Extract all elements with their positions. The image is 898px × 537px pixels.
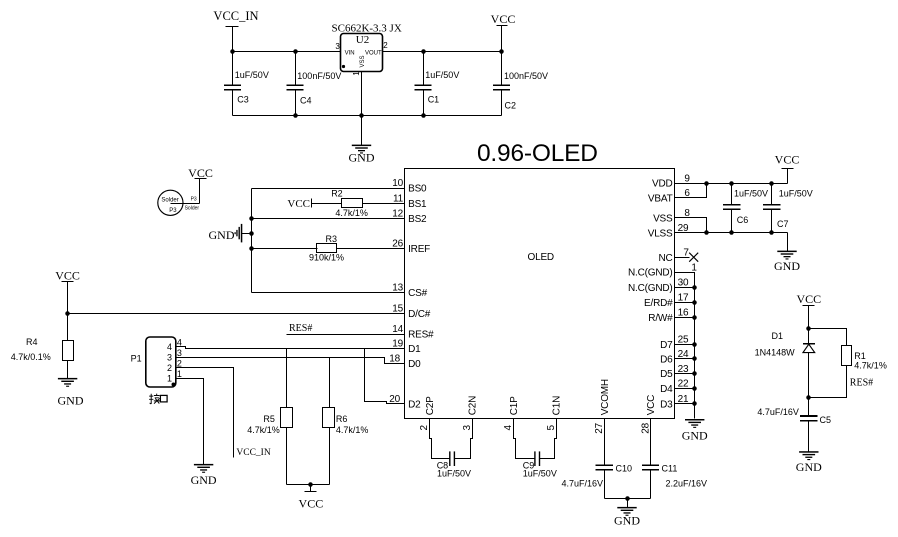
svg-text:C1P: C1P <box>509 396 520 415</box>
wire D6 <box>675 358 695 360</box>
wire D5 <box>675 373 695 375</box>
svg-text:1uF/50V: 1uF/50V <box>235 70 269 80</box>
svg-text:VCC: VCC <box>188 166 213 180</box>
svg-text:RES#: RES# <box>408 330 434 341</box>
svg-text:C2P: C2P <box>425 396 436 415</box>
wire BS2 <box>252 218 405 220</box>
svg-text:BS0: BS0 <box>408 184 427 195</box>
svg-text:GND: GND <box>191 473 217 487</box>
wire P1 pin4 to D1 <box>176 347 405 349</box>
svg-text:R6: R6 <box>336 414 348 424</box>
svg-text:2: 2 <box>167 363 172 373</box>
node diode bottom <box>806 395 811 400</box>
net port VCC + resistor R2 to BS1 <box>287 189 404 219</box>
svg-text:VCC: VCC <box>796 292 821 306</box>
svg-text:9: 9 <box>684 173 690 184</box>
svg-text:4.7k/1%: 4.7k/1% <box>854 360 887 370</box>
capacitor C1 <box>414 52 459 116</box>
svg-text:C5: C5 <box>820 415 832 425</box>
wire CS# <box>252 292 405 294</box>
wire VBAT join <box>675 184 707 198</box>
net port VCC (diode circuit) <box>796 292 821 329</box>
svg-text:Solder: Solder <box>161 197 178 203</box>
right GND bus <box>675 273 695 419</box>
svg-text:3: 3 <box>167 352 172 362</box>
capacitor C2 <box>493 52 548 116</box>
svg-text:1uF/50V: 1uF/50V <box>779 188 813 198</box>
capacitor C11 <box>642 419 707 499</box>
svg-text:18: 18 <box>389 354 400 365</box>
svg-text:Solder: Solder <box>185 206 200 212</box>
svg-text:VCC: VCC <box>299 497 324 511</box>
svg-text:4: 4 <box>503 425 514 431</box>
wire BS0 <box>252 188 405 190</box>
svg-text:RES#: RES# <box>850 378 873 389</box>
wire pin16 <box>675 317 695 319</box>
wire P1 pin2 VCC_IN <box>176 368 234 458</box>
svg-text:P3: P3 <box>191 197 197 203</box>
svg-text:0.96-OLED: 0.96-OLED <box>477 140 598 167</box>
svg-text:1: 1 <box>691 262 697 273</box>
svg-text:VDD: VDD <box>652 179 673 190</box>
svg-text:R4: R4 <box>26 337 38 347</box>
svg-text:15: 15 <box>392 303 403 314</box>
svg-text:D0: D0 <box>408 359 421 370</box>
svg-text:RES#: RES# <box>289 323 312 334</box>
svg-text:1uF/50V: 1uF/50V <box>734 188 768 198</box>
wire D7 <box>675 344 695 346</box>
svg-text:GND: GND <box>614 513 640 527</box>
solder jumper P3 <box>158 179 200 216</box>
svg-text:VLSS: VLSS <box>648 228 673 239</box>
svg-text:VCC_IN: VCC_IN <box>236 448 270 458</box>
pin names left side <box>408 184 434 411</box>
svg-text:D2: D2 <box>408 400 421 411</box>
svg-text:R3: R3 <box>326 234 338 244</box>
svg-text:4: 4 <box>177 337 182 347</box>
svg-text:VCC: VCC <box>646 395 657 416</box>
svg-text:3: 3 <box>335 42 340 51</box>
svg-text:IREF: IREF <box>408 244 430 255</box>
svg-text:C7: C7 <box>777 219 789 229</box>
svg-text:28: 28 <box>640 422 651 433</box>
svg-text:VBAT: VBAT <box>648 193 673 204</box>
bottom rail (top section) <box>233 115 502 117</box>
svg-text:U2: U2 <box>356 34 369 46</box>
wire D3 <box>675 403 695 405</box>
capacitor C4 <box>286 52 341 116</box>
wire VLSS to GND <box>787 233 789 252</box>
connector P1 <box>131 337 182 387</box>
svg-text:D/C#: D/C# <box>408 309 431 320</box>
svg-text:4.7k/1%: 4.7k/1% <box>247 425 280 435</box>
svg-text:D7: D7 <box>660 340 673 351</box>
svg-text:P3: P3 <box>169 208 177 214</box>
resistor R3 to IREF <box>252 234 405 262</box>
svg-text:C2N: C2N <box>468 396 479 415</box>
svg-text:16: 16 <box>678 307 689 318</box>
wire VSS join <box>675 218 707 233</box>
svg-text:4.7k/1%: 4.7k/1% <box>335 208 368 218</box>
svg-text:VSS: VSS <box>360 55 366 67</box>
svg-text:5: 5 <box>546 425 557 431</box>
svg-text:7: 7 <box>683 247 689 258</box>
svg-text:VSS: VSS <box>653 213 673 224</box>
wire branch to D2 <box>365 349 405 404</box>
pin NC with X (no connect) <box>675 253 699 262</box>
svg-text:VCC: VCC <box>775 152 800 166</box>
svg-text:D1: D1 <box>408 344 421 355</box>
op chip U1 OLED <box>405 169 675 419</box>
svg-text:R5: R5 <box>263 414 275 424</box>
svg-text:100nF/50V: 100nF/50V <box>297 71 341 81</box>
capacitor C3 <box>224 52 269 116</box>
svg-text:1: 1 <box>177 369 182 379</box>
svg-text:D4: D4 <box>660 384 673 395</box>
label 接口 (drawn glyphs) <box>149 394 167 404</box>
svg-text:C11: C11 <box>662 463 678 473</box>
svg-text:2: 2 <box>419 425 430 431</box>
svg-text:D3: D3 <box>660 399 673 410</box>
svg-text:VCC_IN: VCC_IN <box>213 9 258 23</box>
resistor R5 <box>247 349 292 485</box>
node diode top <box>806 326 811 331</box>
svg-text:2: 2 <box>383 41 388 50</box>
resistor R1 <box>809 329 887 398</box>
net port VCC (bottom, inverted) <box>299 485 324 511</box>
net port VCC (right) <box>775 152 800 183</box>
svg-text:D5: D5 <box>660 369 673 380</box>
ground under C10/C11 <box>614 507 640 527</box>
wire C10/C11 to GND <box>605 498 651 500</box>
svg-text:GND: GND <box>58 393 84 407</box>
svg-text:14: 14 <box>392 324 403 335</box>
svg-text:100nF/50V: 100nF/50V <box>504 71 548 81</box>
wire VCC to R4 and D/C# <box>67 282 69 341</box>
svg-text:4.7uF/16V: 4.7uF/16V <box>757 407 799 417</box>
wire VCC_IN to rail <box>232 27 234 52</box>
svg-text:VCC: VCC <box>55 268 80 282</box>
svg-text:GND: GND <box>209 228 235 242</box>
svg-text:R1: R1 <box>854 351 866 361</box>
wire P1 pin3 to D0 <box>176 358 405 364</box>
pin numbers left side <box>389 178 403 405</box>
net label RES# wire <box>287 323 405 335</box>
pin names bottom (rotated) <box>425 379 657 415</box>
svg-text:910k/1%: 910k/1% <box>309 252 344 262</box>
svg-text:1uF/50V: 1uF/50V <box>437 468 471 478</box>
ground (sideways) on bus <box>209 224 252 243</box>
net port VCC (solder) <box>188 166 213 180</box>
pin numbers right side <box>678 173 698 405</box>
capacitor C7 <box>763 181 813 235</box>
svg-text:SC662K-3.3 JX: SC662K-3.3 JX <box>332 23 402 35</box>
svg-text:11: 11 <box>393 193 404 204</box>
resistor R6 <box>323 358 369 485</box>
svg-text:1: 1 <box>167 373 172 383</box>
ground under U2 <box>349 145 375 165</box>
svg-text:C10: C10 <box>616 463 633 473</box>
wire D4 <box>675 388 695 390</box>
svg-text:CS#: CS# <box>408 288 427 299</box>
svg-text:BS1: BS1 <box>408 199 427 210</box>
junction dots top rail <box>230 49 235 54</box>
svg-text:3: 3 <box>177 348 182 358</box>
resistor R4 <box>11 337 74 362</box>
svg-text:17: 17 <box>678 293 689 304</box>
svg-text:C3: C3 <box>237 95 249 105</box>
svg-text:VCC: VCC <box>491 12 516 26</box>
svg-text:4.7uF/16V: 4.7uF/16V <box>561 478 603 488</box>
capacitor C10 <box>561 419 632 499</box>
svg-text:R/W#: R/W# <box>648 313 673 324</box>
svg-text:D1: D1 <box>772 331 784 341</box>
ground under C5 <box>796 451 822 474</box>
svg-text:1uF/50V: 1uF/50V <box>425 70 459 80</box>
left GND bus <box>251 189 253 293</box>
ground under P1 <box>191 464 217 487</box>
wire D/C# <box>68 313 405 315</box>
svg-text:VCOMH: VCOMH <box>600 379 611 415</box>
svg-text:GND: GND <box>682 429 708 443</box>
pin names right side <box>628 179 673 411</box>
svg-text:GND: GND <box>774 259 800 273</box>
wire R5/R6 to VCC <box>287 484 330 486</box>
svg-text:P1: P1 <box>131 354 142 364</box>
svg-text:VOUT: VOUT <box>365 51 382 57</box>
capacitor C6 <box>723 181 768 235</box>
svg-text:D6: D6 <box>660 354 673 365</box>
svg-text:10: 10 <box>392 178 403 189</box>
wire P1 pin1 to GND <box>176 379 204 465</box>
svg-text:3: 3 <box>462 425 473 431</box>
svg-text:4: 4 <box>167 342 172 352</box>
wire U2 VSS to GND <box>361 72 363 146</box>
capacitor C8 <box>430 419 473 479</box>
diode D1 1N4148W <box>755 329 815 398</box>
svg-text:2.2uF/16V: 2.2uF/16V <box>666 478 708 488</box>
node: VIN rail <box>233 51 341 53</box>
svg-text:E/RD#: E/RD# <box>644 298 673 309</box>
svg-text:R2: R2 <box>331 189 343 199</box>
wire pin17 <box>675 302 695 304</box>
svg-text:BS2: BS2 <box>408 214 427 225</box>
svg-text:13: 13 <box>392 283 403 294</box>
svg-text:C4: C4 <box>300 96 312 106</box>
svg-text:C1N: C1N <box>552 396 563 415</box>
svg-text:VIN: VIN <box>345 51 355 57</box>
wire VOUT rail <box>383 51 502 53</box>
net port VCC (top right) <box>491 12 516 51</box>
ground (right bus) <box>682 419 708 443</box>
svg-text:GND: GND <box>796 460 822 474</box>
svg-text:1: 1 <box>352 71 361 76</box>
svg-text:C6: C6 <box>737 215 749 225</box>
svg-text:27: 27 <box>594 422 605 433</box>
svg-text:N.C(GND): N.C(GND) <box>628 283 673 294</box>
svg-text:4.7k/1%: 4.7k/1% <box>336 425 369 435</box>
wire pin30 <box>675 287 695 289</box>
svg-text:VCC: VCC <box>287 198 310 210</box>
svg-text:GND: GND <box>349 151 375 165</box>
pin numbers bottom (rotated) <box>419 422 651 433</box>
svg-text:C1: C1 <box>428 95 440 105</box>
net port VCC_IN (top) <box>213 9 258 26</box>
wire VDD rail <box>675 183 788 185</box>
wire VLSS rail <box>675 232 788 234</box>
ground (right rails) <box>774 251 800 274</box>
svg-text:1N4148W: 1N4148W <box>755 347 796 357</box>
ground under R4 <box>58 378 84 407</box>
net port VCC (left) <box>55 268 80 282</box>
svg-text:N.C(GND): N.C(GND) <box>628 268 673 279</box>
svg-text:OLED: OLED <box>528 252 554 263</box>
capacitor C5 <box>757 398 831 452</box>
regulator U2 SC662K-3.3 JX <box>332 23 402 76</box>
capacitor C9 <box>514 419 557 479</box>
svg-text:4.7k/0.1%: 4.7k/0.1% <box>11 352 51 362</box>
wire R4 to GND <box>67 361 69 379</box>
svg-text:1uF/50V: 1uF/50V <box>523 468 557 478</box>
svg-text:C2: C2 <box>505 101 517 111</box>
svg-text:NC: NC <box>658 253 672 264</box>
